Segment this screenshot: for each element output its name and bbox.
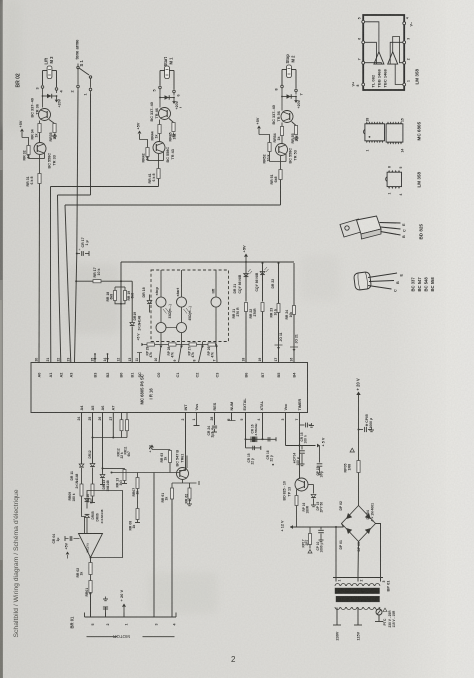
wire base rail y472 (112, 472, 180, 474)
wire RR61 down to motor pin4 (171, 499, 173, 613)
wire +5V branch (286, 445, 316, 447)
wire +12V rail (290, 526, 344, 528)
wire SC stub (139, 353, 141, 363)
op-amp box right pin 4 (403, 22, 406, 25)
PTC thermistor (378, 608, 380, 610)
wire op-amp output down (90, 558, 92, 563)
wire rail y186 to A1 (51, 186, 159, 188)
wire TR43 emitter (163, 152, 165, 161)
wire primary 230V lead (336, 608, 338, 626)
diode DR41 flyback (165, 95, 169, 99)
wire C1 to uC (179, 345, 182, 363)
wire stop-start link (166, 327, 177, 329)
TO-220 lead E (380, 222, 401, 225)
wire S1 pin2 down to uC (75, 91, 79, 363)
op-amp U2 comparator (79, 534, 103, 558)
test point triangle (350, 448, 354, 452)
right light margin (446, 0, 474, 678)
wire ladder h468 (103, 467, 125, 469)
wire op-amp A output to pin 5 (365, 22, 379, 52)
capacitor CR02 on motor pin2 (105, 607, 107, 613)
wire TR33 emitter up (44, 153, 46, 159)
wire EXTAL down (245, 413, 247, 440)
scan smudge top-left (3, 0, 21, 130)
op-amp box left pin 8 (362, 83, 365, 86)
TO-92 lead C (368, 286, 392, 290)
connector BR01 bracket (85, 616, 177, 618)
wire B7 column (262, 262, 264, 264)
contact pin 1 BR01 (123, 613, 125, 618)
wire op-amp A +input to pin 7 (365, 63, 382, 64)
terminal 115V (354, 624, 362, 626)
wire bridge right to transformer pin3 (376, 524, 381, 575)
wire B4 column (293, 263, 295, 306)
wire rail y280 (75, 280, 77, 282)
wire INT to TR61 (185, 413, 187, 471)
wire rail y204 to A3 (65, 204, 281, 206)
wire op-amp A -input to pin 6 (365, 42, 377, 64)
transformer secondary winding (335, 584, 340, 587)
TO-220 lead B (381, 232, 401, 236)
op-amp box left pin 6 (362, 41, 365, 44)
wire op-amp B -input to pin 3 (390, 42, 403, 64)
op-amp box right pin 1 (403, 83, 406, 86)
wire C2 to uC (199, 345, 203, 363)
op-amp box right pin 3 (403, 41, 406, 44)
bridge diode DP02 (346, 513, 352, 519)
contact pin 2 BR01 (105, 613, 107, 618)
wire B3 stub arrow (94, 353, 96, 355)
ghost print-through 1 (66, 264, 120, 334)
opto start sensor (177, 323, 187, 333)
TO-92 lead B (369, 281, 394, 282)
contact pin 5 BR01 (90, 613, 92, 618)
wire B5 column (278, 262, 280, 264)
ghost print-through 3 (300, 255, 340, 301)
wire +20V main vertical (358, 395, 360, 506)
IC U1 MC 6805 P6 SC box (31, 363, 308, 413)
TO-220 lead C (381, 227, 401, 229)
junction arrow C2 (201, 346, 204, 348)
wire RP chain (144, 344, 217, 346)
wire B2 stub arrow (107, 353, 109, 355)
junction arrow C1 (180, 346, 183, 348)
wire A7 down (112, 413, 114, 438)
junction arrow C3 (215, 346, 218, 348)
wire RR51 down to rail (280, 180, 282, 206)
opto lift sensor (211, 297, 221, 307)
wire contact5 down to TR46 (159, 92, 161, 108)
feedback wire loop (87, 491, 123, 558)
wire TR36 base to TR33 (39, 135, 41, 143)
bridge diode DP04 (365, 513, 371, 519)
wire contact8 down to TR56 (281, 91, 283, 111)
wire ladder h437 (93, 437, 128, 439)
wire B1 column (131, 281, 133, 322)
wire +5V rail y261 (121, 261, 294, 263)
wire C3 to uC (216, 345, 219, 363)
wire RR41 down to rail (158, 179, 160, 187)
ground bar TR46 (180, 107, 182, 109)
wire RR18 RR19 top join (115, 286, 125, 288)
wire bridge left to transformer pin1 (342, 524, 344, 528)
ghost print-through 2 (148, 572, 218, 614)
wire XTAL down (262, 413, 264, 440)
wire S1 pin1 down to rail (90, 94, 92, 196)
wire bridge bottom to transformer pin2 (357, 542, 360, 575)
wire A4 down (81, 413, 83, 465)
diode DR51 flyback (287, 94, 291, 98)
TR61 collector stub (186, 456, 188, 469)
opto start LED (177, 297, 187, 307)
op-amp B triangle (388, 52, 398, 64)
wire RR09 to op-amp input (82, 496, 85, 534)
wire opto feed-through (202, 342, 204, 345)
IC U3 dual op-amp pinout box TL082 (363, 15, 404, 90)
op-amp box right pin 2 (403, 61, 406, 64)
wire emitter rail y482 (172, 482, 197, 484)
wire B6 column (245, 263, 247, 302)
wire TIMER down (299, 413, 301, 449)
contact pin 3 BR01 (153, 613, 155, 618)
wire A6 down (102, 413, 104, 473)
wire C0 to uC (159, 345, 161, 363)
wire rail y194 to A2 (58, 194, 91, 196)
wire RR01 to motor pin5 (90, 593, 92, 613)
opto stop LED (156, 297, 166, 307)
left scan edge (0, 0, 3, 678)
op-amp A triangle (374, 52, 384, 64)
wire contact3 to TR36 collector (42, 91, 44, 108)
wire NUM stub (231, 413, 233, 421)
wire primary 115V lead (357, 608, 359, 626)
wire A5 down (92, 413, 94, 464)
opto stop sensor (156, 323, 166, 333)
wire Vss stub (196, 413, 198, 426)
bridge diode DP01 (346, 528, 352, 534)
TO-92 lead E (368, 273, 397, 278)
diode DR31 flyback (47, 94, 51, 98)
wire Vcc down (285, 413, 287, 446)
op-amp box left pin 7 (362, 61, 365, 64)
junction arrow C0 (160, 346, 163, 348)
wire down to motor pin3 (153, 473, 155, 613)
TR61 emitter wire (182, 480, 184, 484)
wire op-amp B +input to pin 1 (395, 64, 403, 84)
transformer core bar 2 (336, 596, 380, 602)
transformer core bar 1 (335, 588, 380, 594)
bridge diode DP03 (365, 528, 371, 534)
wire op-amp B output to pin 2 (393, 37, 403, 63)
wire RR31 to uC A0 (38, 184, 41, 363)
op-amp box left pin 5 (362, 20, 365, 23)
+20V arrow main (356, 392, 360, 396)
wire corner x120 down to B0 (120, 262, 122, 363)
contact pin 4 BR01 (171, 613, 173, 618)
terminal 230V (333, 624, 341, 626)
transformer secondary bracket (333, 577, 383, 579)
opto sensor box dashed (151, 270, 229, 342)
wire TR53 emitter (285, 154, 287, 162)
diode DR05 (86, 493, 88, 498)
transformer primary winding (335, 607, 340, 610)
